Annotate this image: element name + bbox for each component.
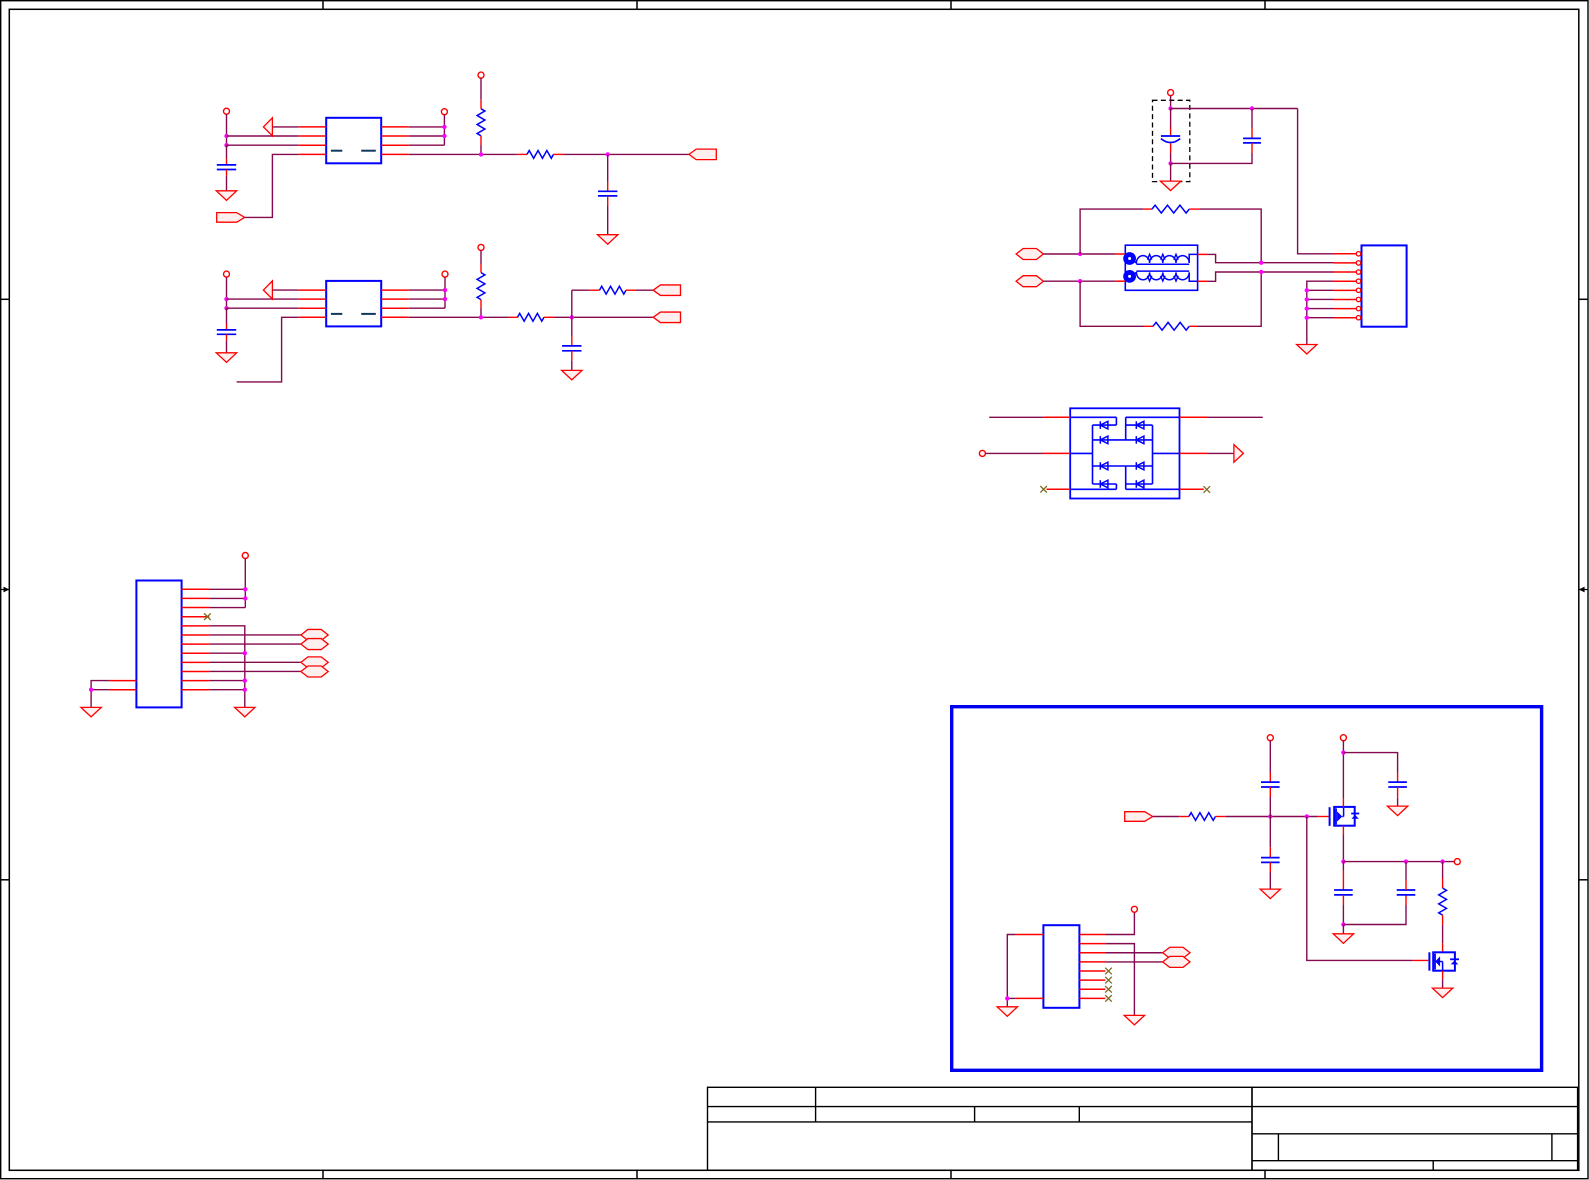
wire A row3 left — [227, 144, 299, 146]
transistor Q1 (P-MOSFET) — [1330, 807, 1360, 826]
node junction out2 — [1259, 270, 1263, 274]
resistor R2 (series) — [517, 151, 563, 159]
capacitor C5 (polarized) — [1161, 109, 1180, 164]
optocoupler U2 — [299, 281, 409, 327]
ground (C8) — [1260, 889, 1280, 899]
wire J2 pin6 — [209, 634, 301, 636]
port OUT2 (diamond) — [301, 639, 328, 650]
wire D mid right — [1180, 452, 1234, 454]
diode array U3 body — [1070, 408, 1179, 498]
connector J1 — [1334, 245, 1407, 326]
wire J2 pin5 bus — [209, 626, 245, 708]
node junction J1 pin7 — [1305, 306, 1309, 310]
wire bottom rail to C11 — [1343, 905, 1406, 925]
wire J1 pin7 — [1307, 308, 1334, 310]
node junction J2-8 — [243, 651, 247, 655]
wire P7 down — [1170, 96, 1172, 109]
capacitor C4 — [562, 317, 581, 360]
wire P4 down — [226, 277, 228, 308]
wire J1 pin8 — [1307, 317, 1334, 319]
pin circle D mid — [979, 450, 985, 456]
ground (C2) — [598, 235, 618, 245]
resistor R8 (gate series) — [1179, 813, 1225, 821]
wire top rail left — [1080, 209, 1143, 254]
power pin P12 (J3) — [1131, 906, 1137, 912]
capacitor C7 — [1261, 741, 1280, 817]
power pin P6 (above R3) — [478, 244, 484, 250]
node junction src-3 — [1440, 859, 1444, 863]
wire D top right — [1180, 416, 1263, 418]
wire A row1 left — [272, 126, 298, 128]
wire IN1 to choke — [1043, 253, 1116, 255]
output port A — [689, 149, 716, 160]
node junction B-left-2 — [224, 306, 228, 310]
wire Q1 source — [1342, 826, 1344, 862]
output port B2 — [653, 312, 680, 323]
wire P8 down — [244, 559, 246, 608]
node junction C-bot — [1168, 161, 1172, 165]
node junction A-out — [606, 152, 610, 156]
wire R4 to port — [555, 316, 654, 318]
port IN2 (diamond) — [1016, 276, 1043, 287]
wire J2 pin8 — [209, 652, 245, 654]
diode D6 — [1136, 436, 1144, 444]
power pin P9 — [1267, 735, 1273, 741]
power pin P11 (right) — [1454, 859, 1460, 865]
dashed box (polarized cap) — [1153, 100, 1190, 181]
power pin P2 (circuit A right) — [441, 109, 447, 115]
wire R8 to gate — [1226, 816, 1329, 818]
node junction F-gate-1 — [1268, 814, 1272, 818]
capacitor C10 — [1334, 862, 1353, 925]
node junction J1 pin8 — [1305, 316, 1309, 320]
diode D7 — [1136, 462, 1144, 470]
wire B row2 right — [409, 298, 445, 300]
wire J3 pin3 — [1105, 952, 1162, 954]
capacitor C1 — [217, 159, 236, 176]
port IN1 (diamond) — [1016, 249, 1043, 260]
wire choke out1 — [1208, 254, 1334, 262]
ground (Q2) — [1432, 988, 1452, 998]
node junction J3-left — [1005, 996, 1009, 1000]
wire P5 down to row3 — [444, 277, 446, 308]
power pin P5 (circuit B right) — [442, 271, 448, 277]
node junction C-top — [1168, 106, 1172, 110]
wire source rail — [1343, 861, 1454, 863]
port F1 (diamond) — [1163, 947, 1190, 958]
no-connect X right — [1204, 486, 1211, 493]
wire node top to C6 — [1171, 108, 1298, 110]
wire power to connector pin1 — [1298, 109, 1334, 254]
node junction Q1-drain — [1341, 750, 1345, 754]
output arrow port A — [263, 118, 272, 136]
capacitor C6 — [1171, 109, 1261, 164]
wire choke out2 — [1208, 272, 1334, 281]
power pin P1 (circuit A left) — [224, 108, 230, 114]
wire A row3 right — [409, 144, 445, 146]
wire P1 down — [226, 114, 228, 145]
ground (J1) — [1297, 345, 1317, 355]
power pin P4 (circuit B left) — [224, 271, 230, 277]
wire J1 pin6 — [1307, 298, 1334, 300]
node junction src-2 — [1404, 859, 1408, 863]
wire F input to R8 — [1153, 816, 1180, 818]
capacitor C9 — [1388, 773, 1407, 798]
wire D top left — [989, 416, 1070, 418]
node junction A-left-1 — [224, 134, 228, 138]
wire C3 to ground — [226, 341, 228, 353]
wire C5 to ground — [1170, 163, 1172, 181]
node junction J2-1 — [243, 587, 247, 591]
no-connect X J3 pin7 — [1105, 986, 1112, 993]
wire J2 pin2 — [209, 597, 245, 599]
capacitor C8 — [1261, 817, 1280, 890]
wire J2 pin1 — [209, 588, 245, 590]
wire B-out up — [571, 290, 573, 317]
capacitor C11 — [1397, 862, 1416, 905]
node junction A-right-1 — [442, 125, 446, 129]
wire C2 to ground — [607, 206, 609, 235]
wire J1 pins 4-8 bus — [1307, 281, 1334, 344]
power pin P3 (above R1) — [478, 72, 484, 78]
no-connect X J3 pin6 — [1105, 977, 1112, 984]
capacitor C2 — [598, 154, 617, 206]
wire C9 to ground — [1397, 798, 1399, 806]
ground (J3 right) — [1124, 1015, 1144, 1025]
power pin P10 — [1340, 735, 1346, 741]
node junction A-left-2 — [224, 143, 228, 147]
connector J3 — [1016, 925, 1106, 1008]
resistor R3 (pull-up) — [477, 250, 485, 317]
node junction B (R3 bottom) — [479, 315, 483, 319]
wire B row4 right — [409, 316, 509, 318]
wire Q2 source — [1442, 971, 1444, 988]
node junction B-right-1 — [443, 288, 447, 292]
wire Q1 drain — [1342, 741, 1344, 807]
wire R9 to Q2 drain — [1442, 943, 1444, 952]
wire B dot2 to cap — [226, 308, 228, 323]
port OUT3 (diamond) — [301, 657, 328, 668]
ground (J2 left) — [81, 707, 101, 717]
wire F-bot to ground — [1342, 925, 1344, 934]
node junction J1 pin5 — [1305, 288, 1309, 292]
connector J2 — [109, 581, 209, 708]
diode D4 — [1100, 480, 1108, 488]
node junction J2-12 — [243, 688, 247, 692]
ground (C5) — [1160, 181, 1180, 191]
wire J2 pin7 — [209, 643, 301, 645]
node junction B-right-2 — [443, 297, 447, 301]
common-mode choke L1 — [1116, 245, 1208, 290]
node junction B-out — [570, 315, 574, 319]
no-connect X pin4 — [204, 613, 211, 620]
diode D2 — [1100, 436, 1108, 444]
resistor R5 (upper output) — [572, 286, 653, 294]
wire C4 to ground — [571, 361, 573, 371]
node junction A-right-2 — [442, 134, 446, 138]
ground (F-bot) — [1333, 934, 1353, 944]
wire IN2 to choke — [1043, 280, 1116, 282]
wire J1 pin5 — [1307, 289, 1334, 291]
diode D3 — [1100, 462, 1108, 470]
no-connect X left — [1040, 486, 1047, 493]
ground (C1) — [216, 191, 236, 201]
ground (C9) — [1387, 806, 1407, 816]
wire J2 pin3 — [209, 607, 245, 609]
title block right table — [1252, 1087, 1578, 1170]
power pin P8 (J2) — [242, 553, 248, 559]
node junction IN1 — [1078, 252, 1082, 256]
no-connect X J3 pin5 — [1105, 968, 1112, 975]
output arrow port B — [263, 281, 272, 299]
ground (J3 left) — [997, 1007, 1017, 1017]
port F2 (diamond) — [1163, 956, 1190, 967]
ground (J2 right) — [235, 707, 255, 717]
no-connect X J3 pin8 — [1105, 995, 1112, 1002]
wire J2 pin12 — [209, 689, 245, 691]
node junction A (R1 bottom) — [479, 152, 483, 156]
wire A row4 right — [409, 153, 517, 155]
title block left table — [708, 1087, 1253, 1170]
node junction J2-2 — [243, 596, 247, 600]
wire D mid left — [985, 452, 1070, 454]
diode D1 — [1100, 421, 1108, 429]
wire drain to C9 — [1343, 753, 1397, 773]
port OUT1 (diamond) — [301, 629, 328, 640]
input port tag A — [217, 213, 245, 223]
wire J2 left pins — [91, 681, 109, 717]
wire bottom rail left — [1080, 281, 1144, 326]
wire B row2 left — [227, 298, 299, 300]
resistor R6 (top bypass) — [1143, 205, 1199, 213]
wire gate chain Q2 — [1307, 817, 1429, 961]
node junction J1 pin6 — [1305, 297, 1309, 301]
optocoupler U1 — [299, 118, 409, 164]
node junction J2-left — [89, 688, 93, 692]
resistor R7 (bottom bypass) — [1144, 322, 1198, 330]
port OUT4 (diamond) — [301, 666, 328, 677]
wire B row3 right — [409, 307, 445, 309]
wire input port A to row4 — [245, 154, 299, 217]
wire D bottom right — [1180, 488, 1204, 490]
wire bottom rail right — [1198, 272, 1261, 326]
node junction out1 — [1259, 261, 1263, 265]
sub-circuit border box — [952, 707, 1542, 1071]
wire J3 pin2 — [1105, 944, 1134, 1016]
wire A row2 right — [409, 135, 445, 137]
resistor R9 — [1439, 862, 1447, 944]
wire A row1 right — [409, 126, 445, 128]
output port B1 — [653, 285, 680, 296]
diode D8 — [1136, 480, 1144, 488]
node junction F-gate-2 — [1305, 814, 1309, 818]
resistor R1 (pull-up) — [477, 78, 485, 154]
right edge center arrow — [1579, 587, 1588, 593]
left edge center arrow — [1, 587, 10, 593]
wire B row4 stub — [237, 317, 299, 382]
wire D bottom left — [1047, 488, 1071, 490]
node junction B-left-1 — [224, 297, 228, 301]
wire J2 pin9 — [209, 661, 301, 663]
wire J2 pin10 — [209, 670, 301, 672]
wire J3 left pins — [1007, 935, 1015, 1007]
wire B row3 left — [227, 307, 299, 309]
wire C1 to ground — [226, 176, 228, 191]
node junction Q1-source — [1341, 859, 1345, 863]
wire top rail right — [1199, 209, 1261, 263]
wire B row1 right — [409, 289, 445, 291]
node junction F-bot — [1341, 922, 1345, 926]
power pin P7 (top right) — [1168, 90, 1174, 96]
wire P2 down to row3 — [443, 115, 445, 146]
ground (C3) — [216, 353, 236, 363]
wire R2 to port — [563, 153, 689, 155]
resistor R4 (series) — [509, 313, 555, 321]
wire A dot2 to cap — [226, 145, 228, 158]
wire B row1 left — [272, 289, 298, 291]
transistor Q2 (N-MOSFET) — [1429, 952, 1459, 970]
node junction C6-top — [1250, 106, 1254, 110]
node junction IN2 — [1078, 279, 1082, 283]
wire J3 pin1 — [1105, 912, 1134, 934]
wire J3 pin4 — [1105, 961, 1162, 963]
ground (C4) — [562, 370, 582, 380]
wire A row2 left — [227, 135, 299, 137]
input port F — [1125, 812, 1153, 822]
diode D5 — [1136, 421, 1144, 429]
wire J2 pin11 — [209, 680, 245, 682]
capacitor C3 — [217, 324, 236, 341]
node junction J2-11 — [243, 678, 247, 682]
arrow port D out — [1234, 445, 1244, 463]
